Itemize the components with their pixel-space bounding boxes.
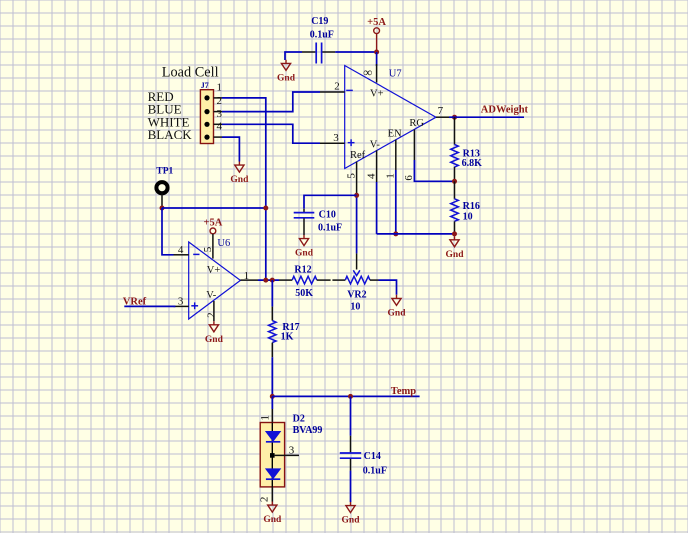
svg-text:1: 1 <box>385 173 397 179</box>
capacitor C14 <box>340 453 361 458</box>
wire to C14 <box>350 396 352 435</box>
J7 pin 1 pad <box>204 95 209 100</box>
R12 pin 2 <box>317 279 331 281</box>
svg-text:0.1uF: 0.1uF <box>318 223 342 234</box>
ground under D2 <box>268 502 277 513</box>
wire Gnd to C19 left <box>285 52 302 60</box>
svg-text:+5A: +5A <box>367 17 386 28</box>
wire Temp <box>272 395 419 397</box>
svg-text:TP1: TP1 <box>156 167 173 177</box>
wire C14 to ground <box>350 471 352 502</box>
svg-text:0.1uF: 0.1uF <box>363 465 387 476</box>
D2 pin 2 <box>271 487 273 502</box>
wire +5A node to U7 pin 8 <box>376 52 378 66</box>
U7 pin 7 <box>436 116 449 118</box>
C10 pin 1 <box>303 209 305 212</box>
wire pin7 to node <box>449 116 455 118</box>
svg-text:2: 2 <box>334 81 340 93</box>
svg-text:4: 4 <box>216 121 222 133</box>
wire wiper to U7 pin5 node <box>356 195 358 253</box>
wire to D2 <box>271 396 273 409</box>
svg-text:Ref: Ref <box>350 150 366 161</box>
test point TP1 <box>156 182 167 193</box>
D2 center tap <box>270 453 275 458</box>
svg-text:Load Cell: Load Cell <box>162 65 219 81</box>
R16 pin 1 <box>454 181 456 199</box>
node Temp left junction <box>270 394 275 399</box>
VR2 pin 3 wiper <box>356 253 358 269</box>
wire U7 pin6 to R13/R16 node <box>414 160 454 181</box>
wire J7 pin1 down left bus <box>222 98 266 280</box>
R17 pin 2 <box>271 343 273 358</box>
svg-text:U6: U6 <box>217 238 230 249</box>
VR2 wiper arrow <box>353 270 360 275</box>
U7 minus marker <box>346 89 353 91</box>
node left bus bottom junction <box>263 278 268 283</box>
U7 pin 5 <box>356 162 358 196</box>
svg-text:6.8K: 6.8K <box>462 158 483 169</box>
svg-text:V+: V+ <box>207 265 221 276</box>
svg-text:4: 4 <box>178 244 184 256</box>
U7 pin 1 <box>395 140 397 170</box>
+5A power U6 <box>210 228 216 234</box>
svg-text:Gnd: Gnd <box>230 175 249 185</box>
node C14 junction <box>348 394 353 399</box>
svg-text:7: 7 <box>438 105 444 117</box>
ground under VR2 <box>392 295 401 306</box>
node +5A / C19 junction <box>374 50 379 55</box>
U6 pin 2 <box>213 301 215 321</box>
wire U7 pin1 down <box>395 170 397 234</box>
node R13/R16 junction <box>452 179 457 184</box>
U6 pin 4 <box>174 254 189 256</box>
node TP1 junction <box>160 206 165 211</box>
svg-text:2: 2 <box>258 497 270 503</box>
node pin1 junction <box>393 231 398 236</box>
node ADWeight junction <box>452 115 457 120</box>
svg-text:V+: V+ <box>370 89 384 100</box>
R17 pin 1 <box>271 307 273 321</box>
resistor R13 <box>451 145 459 168</box>
ground under J7 <box>235 162 244 173</box>
R13 pin 2 <box>454 167 456 181</box>
svg-text:2: 2 <box>216 95 222 107</box>
svg-text:Gnd: Gnd <box>205 335 224 345</box>
J7 pin 3 pad <box>204 122 209 127</box>
wire J7 pin2 to U7 pin2 <box>222 92 320 112</box>
svg-text:VR2: VR2 <box>347 290 366 301</box>
svg-text:1: 1 <box>216 82 222 94</box>
resistor R16 <box>451 199 459 222</box>
svg-text:∞: ∞ <box>363 65 372 79</box>
svg-text:C14: C14 <box>364 451 381 462</box>
svg-text:3: 3 <box>289 444 295 456</box>
svg-text:6: 6 <box>403 175 415 181</box>
node left bus / TP1 junction <box>263 206 268 211</box>
svg-text:D2: D2 <box>293 414 305 425</box>
wire U7 pin4 down <box>376 182 378 234</box>
svg-text:EN: EN <box>388 128 402 139</box>
connector J7 <box>200 90 213 144</box>
U6 plus marker <box>191 302 198 309</box>
C14 pin 2 <box>350 459 352 471</box>
wire R17 to Temp node <box>271 357 273 396</box>
svg-text:BVA99: BVA99 <box>293 425 323 436</box>
capacitor C19 <box>316 43 321 64</box>
VR2 pin 2 <box>370 279 379 281</box>
wire pin5 to C10 <box>304 195 357 209</box>
wire VRef to U6 pin3 <box>124 305 175 307</box>
+5A stem <box>376 34 378 52</box>
svg-text:3: 3 <box>216 108 222 120</box>
U6 minus marker <box>193 253 199 255</box>
svg-text:10: 10 <box>350 302 360 313</box>
ground under C19 <box>281 60 290 71</box>
VR2 pin 1 <box>332 279 345 281</box>
capacitor C10 <box>294 213 315 218</box>
C19 pin 2 <box>322 51 335 53</box>
node R16 bottom junction <box>452 231 457 236</box>
resistor R17 <box>269 321 277 343</box>
U7 pin 4 <box>376 150 378 182</box>
+5A power U7 <box>374 28 380 34</box>
diode pair D2 <box>260 423 284 487</box>
svg-text:3: 3 <box>333 132 339 144</box>
svg-text:Temp: Temp <box>391 386 416 397</box>
wire J7 pin4 to ground <box>222 137 239 161</box>
potentiometer VR2 <box>345 276 370 284</box>
wire J7 pin3 to U7 pin3 <box>222 124 320 143</box>
svg-text:10: 10 <box>463 212 473 223</box>
svg-text:R16: R16 <box>463 201 480 212</box>
svg-text:4: 4 <box>365 173 377 179</box>
J7 pin 2 pad <box>204 109 209 114</box>
R16 pin 2 <box>454 221 456 234</box>
D2 diode 1 <box>266 432 280 442</box>
svg-text:C10: C10 <box>319 210 336 221</box>
node U7 pin5 junction <box>354 193 359 198</box>
svg-text:V-: V- <box>206 290 217 301</box>
svg-text:Gnd: Gnd <box>342 516 361 526</box>
D2 diode 2 <box>266 469 280 479</box>
C19 pin 1 <box>302 51 315 53</box>
U6 pin 5 <box>212 234 214 259</box>
svg-text:Gnd: Gnd <box>295 249 314 259</box>
svg-text:BLACK: BLACK <box>148 127 193 142</box>
svg-text:+5A: +5A <box>203 217 222 228</box>
svg-text:V-: V- <box>370 140 381 151</box>
svg-text:1: 1 <box>260 415 272 421</box>
svg-text:J7: J7 <box>201 81 209 90</box>
U7 pin 3 line <box>320 142 345 144</box>
svg-text:C19: C19 <box>311 16 328 27</box>
svg-text:1: 1 <box>244 270 250 282</box>
D2 pin 1 <box>271 409 273 423</box>
J7 pin 2 <box>214 111 223 113</box>
node R17 top junction <box>270 278 275 283</box>
op-amp U7 <box>345 66 436 169</box>
svg-text:Gnd: Gnd <box>263 515 282 525</box>
U7 pin 8 <box>376 64 378 83</box>
wire TP1 to left bus <box>162 207 266 209</box>
ground under U6 <box>209 321 218 332</box>
TP1 pin <box>161 193 163 208</box>
J7 pin 3 <box>214 123 223 125</box>
wire ADWeight <box>455 116 525 118</box>
C10 pin 2 <box>303 218 305 235</box>
svg-text:Gnd: Gnd <box>277 73 296 83</box>
ground under C10 <box>299 235 308 246</box>
svg-text:RG: RG <box>409 118 424 129</box>
ground under R16 <box>450 236 459 247</box>
svg-text:ADWeight: ADWeight <box>481 104 529 115</box>
svg-text:5: 5 <box>202 246 214 252</box>
svg-text:1K: 1K <box>281 332 294 343</box>
svg-text:R12: R12 <box>294 264 311 275</box>
ground under C14 <box>346 502 355 513</box>
svg-text:U7: U7 <box>389 69 402 80</box>
C14 pin 1 <box>350 436 352 453</box>
svg-text:5: 5 <box>345 173 357 179</box>
U6 pin 1 <box>240 279 258 281</box>
svg-text:Gnd: Gnd <box>446 250 465 260</box>
svg-text:3: 3 <box>178 296 184 308</box>
U7 pin 2 line <box>320 91 345 93</box>
J7 pin 4 pad <box>204 135 209 140</box>
resistor R12 <box>292 276 317 284</box>
J7 pin 1 <box>214 97 223 99</box>
R13 pin 1 <box>454 117 456 144</box>
J7 pin 4 <box>214 136 223 138</box>
D2 pin 3 <box>275 454 299 456</box>
wire TP1 node to U6 pin4 <box>162 208 174 255</box>
wire U6 out <box>258 279 279 281</box>
svg-text:50K: 50K <box>295 288 313 299</box>
wire bottom rail <box>377 233 455 235</box>
wire C19 to +5A node <box>335 51 376 53</box>
wire VR2 to ground <box>379 280 397 295</box>
U7 plus marker <box>348 139 355 146</box>
U6 pin 3 <box>174 305 189 307</box>
U7 pin 6 <box>413 129 415 160</box>
svg-text:2: 2 <box>205 312 217 318</box>
R12 pin 1 <box>279 279 292 281</box>
svg-text:0.1uF: 0.1uF <box>310 30 334 41</box>
op-amp U6 <box>189 242 241 319</box>
svg-text:Gnd: Gnd <box>388 308 407 318</box>
D2 internal structure <box>271 423 273 487</box>
wire to R17 <box>271 280 273 307</box>
